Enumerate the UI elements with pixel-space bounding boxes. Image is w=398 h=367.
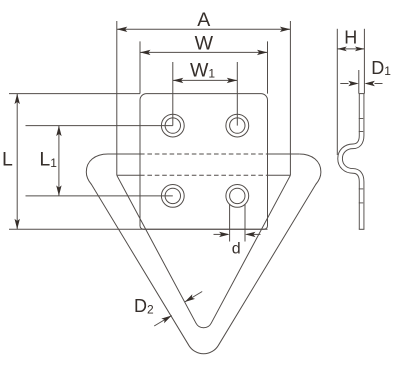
hole 4 <box>226 185 249 208</box>
hole 1 <box>161 114 184 137</box>
svg-text:W1: W1 <box>190 60 215 82</box>
plate (front view) <box>140 94 268 230</box>
dimension D2 arrow at inner leg <box>185 292 203 303</box>
dimension A line <box>117 28 291 30</box>
hole 3 <box>161 185 184 208</box>
svg-text:W: W <box>195 32 214 54</box>
dimension D1 extension line <box>358 70 360 94</box>
dimension H extension lines <box>336 29 338 155</box>
dimension d extension lines <box>229 204 231 242</box>
hole 2 <box>226 114 249 137</box>
side view tick upper hole bottom <box>359 131 363 133</box>
dimension d arrows <box>214 233 229 235</box>
svg-text:A: A <box>197 9 210 31</box>
svg-text:L1: L1 <box>39 149 57 171</box>
triangle ring top bar solid edges <box>108 153 140 155</box>
svg-text:D1: D1 <box>371 58 391 78</box>
dimension L extension lines <box>9 93 140 95</box>
dimension W line <box>140 51 268 53</box>
side view tick upper hole top <box>359 118 363 120</box>
dimension A extension lines <box>116 21 118 175</box>
side view strip top cap <box>359 93 365 95</box>
triangle ring inner boundary <box>117 175 291 327</box>
dimension L1 line <box>58 126 60 196</box>
dimension W extension lines <box>139 41 141 93</box>
dimension W1 extension lines <box>172 62 174 126</box>
side view tick lower hole top <box>359 188 363 190</box>
dimension D2 arrow at outer leg <box>154 316 172 327</box>
dimension D1 arrows <box>340 83 348 85</box>
side view tick lower hole bottom <box>359 202 363 204</box>
triangle ring top bar hidden dashed edges <box>140 153 268 155</box>
side view strip bottom cap <box>359 228 365 230</box>
dimension H line <box>337 48 364 50</box>
svg-text:L: L <box>2 149 13 171</box>
dimension L line <box>16 94 18 230</box>
svg-text:D2: D2 <box>134 296 154 316</box>
dimension W1 line <box>173 79 238 81</box>
triangle ring outer boundary <box>86 154 321 354</box>
dimension L1 extension lines <box>26 125 173 127</box>
svg-text:H: H <box>344 27 357 47</box>
svg-text:d: d <box>232 240 241 257</box>
side view bent strip <box>340 94 362 230</box>
